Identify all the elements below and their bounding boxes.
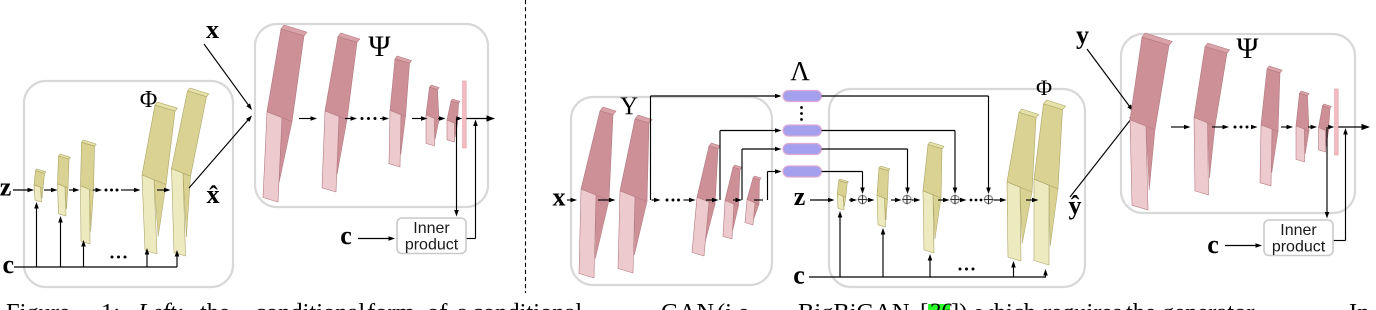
- svg-text:BigBiGAN: BigBiGAN: [798, 299, 910, 310]
- svg-text:c: c: [793, 261, 805, 290]
- svg-text:generator.: generator.: [1162, 299, 1259, 310]
- svg-text:a: a: [457, 299, 468, 310]
- svg-text:product: product: [405, 237, 459, 254]
- svg-text:Φ: Φ: [1036, 75, 1052, 100]
- svg-text:c: c: [340, 221, 352, 250]
- svg-text:product: product: [1272, 239, 1326, 256]
- svg-text:which: which: [976, 299, 1036, 310]
- svg-text:In: In: [1349, 299, 1369, 310]
- svg-text:conditional: conditional: [472, 299, 582, 310]
- svg-text:conditional: conditional: [255, 299, 365, 310]
- svg-text:x̂: x̂: [207, 180, 220, 209]
- svg-text:[: [: [920, 299, 928, 310]
- svg-text:c: c: [3, 250, 15, 279]
- svg-text:the: the: [1126, 299, 1156, 310]
- svg-text:ŷ: ŷ: [1069, 191, 1082, 220]
- svg-text:the: the: [200, 299, 230, 310]
- svg-text:z: z: [794, 182, 806, 211]
- svg-text:x: x: [553, 183, 566, 212]
- svg-text:c: c: [1207, 230, 1219, 259]
- svg-text:(i.e.,: (i.e.,: [717, 299, 761, 310]
- svg-text:of: of: [427, 299, 448, 310]
- svg-text:Inner: Inner: [1280, 222, 1317, 239]
- svg-text:Φ: Φ: [140, 87, 158, 113]
- svg-text:]): ]): [951, 299, 967, 310]
- svg-text:1:: 1:: [101, 299, 120, 310]
- svg-text:z: z: [0, 173, 11, 202]
- svg-text:requires: requires: [1043, 299, 1122, 310]
- svg-text:Ψ: Ψ: [368, 30, 391, 63]
- svg-text:Ψ: Ψ: [1236, 32, 1259, 65]
- svg-text:x: x: [206, 15, 219, 44]
- svg-text:y: y: [1076, 21, 1089, 50]
- svg-text:form: form: [367, 299, 415, 310]
- svg-text:Λ: Λ: [790, 56, 810, 86]
- svg-text:GAN: GAN: [661, 299, 714, 310]
- svg-text:Υ: Υ: [620, 93, 638, 120]
- svg-text:36: 36: [930, 299, 953, 310]
- svg-text:Left:: Left:: [137, 299, 184, 310]
- svg-text:Figure: Figure: [6, 299, 70, 310]
- svg-text:Inner: Inner: [413, 220, 450, 237]
